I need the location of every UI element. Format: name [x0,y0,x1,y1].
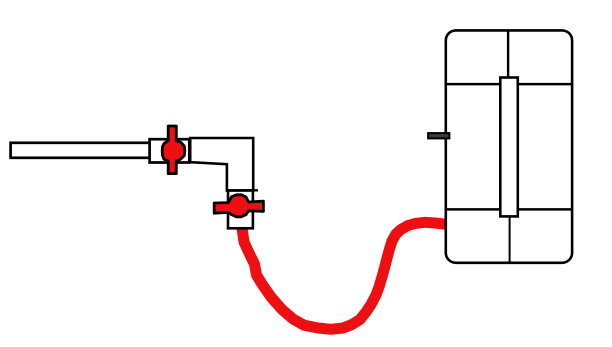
pipe (horizontal supply pipe, left) [11,143,150,158]
tank bottom divider (vertical line) [509,217,511,262]
valve V1 handle (red vertical handle with ball) [162,126,185,174]
elbow (L-shaped pipe fitting) [190,138,253,191]
valve V1 body (union on horizontal pipe) [150,139,190,162]
tank lower horizontal line [447,208,571,211]
valve V2 handle (red horizontal handle with ball) [214,195,263,217]
hose (red flexible tube from valve V2 to tank) [242,222,446,329]
tab (dark gray fitting on tank left side) [428,133,449,138]
tank top divider (vertical line) [507,32,509,78]
valve V2 body top edge overshoot [226,189,258,192]
tank (heater body, rounded rectangle) [446,30,572,262]
tank upper horizontal line [447,83,571,86]
valve V2 body (union on vertical pipe) [228,191,253,229]
gauge (tall sight-glass rectangle on tank) [500,78,518,217]
